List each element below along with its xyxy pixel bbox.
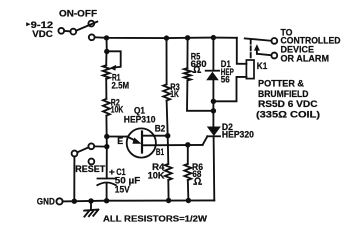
- svg-text:OR ALARM: OR ALARM: [281, 54, 330, 64]
- wire R6 top lead: [187, 145, 189, 164]
- svg-text:(335Ω COIL): (335Ω COIL): [256, 109, 320, 119]
- svg-text:E: E: [117, 136, 123, 146]
- node junction R5 to SCR anode: [211, 108, 216, 113]
- SCR D2 gate lead: [203, 136, 208, 145]
- wire R5 bottom L to SCR anode node: [187, 81, 213, 111]
- wire top supply rail: [95, 36, 237, 39]
- GND terminal circle: [56, 198, 62, 204]
- node junction R6 top on gate line: [185, 142, 190, 147]
- wire relay coil bottom lead: [213, 77, 246, 101]
- wire pot node to R1 top: [105, 52, 107, 66]
- wire D1 bottom lead: [212, 80, 214, 126]
- node junction B2: [165, 133, 170, 138]
- transistor Q1 emitter arrow: [127, 137, 136, 142]
- wire R4 bottom to ground: [167, 180, 169, 200]
- wire SCR cathode down to ground rail: [213, 136, 216, 200]
- ground symbol stem: [90, 201, 92, 210]
- label +9-12 VDC arrow: [26, 22, 30, 26]
- node junction reset wire: [104, 144, 109, 149]
- SCR D2 cathode bar: [207, 135, 220, 137]
- wire R6 bottom to ground: [187, 180, 190, 200]
- svg-text:10K: 10K: [111, 105, 124, 115]
- wiper arrowhead of R1: [110, 65, 117, 71]
- wire rail to C1 top plate: [106, 147, 108, 179]
- wire left rail down to pot tap node: [106, 38, 108, 52]
- node junction relay coil bottom: [211, 99, 216, 104]
- resistor R2 10K zigzag: [103, 99, 110, 116]
- svg-text:VDC: VDC: [32, 28, 53, 39]
- resistor R1 2.5M zigzag: [103, 65, 110, 79]
- switch S1 wire between terminals: [64, 30, 70, 33]
- svg-text:RESET: RESET: [75, 164, 106, 174]
- node junction ground symbol: [88, 198, 93, 203]
- svg-text:K1: K1: [257, 61, 268, 71]
- label ohm R6: [194, 178, 201, 184]
- relay K1 coil box: [246, 60, 254, 79]
- node junction R6 ground: [186, 198, 191, 203]
- svg-text:RS5D 6 VDC: RS5D 6 VDC: [258, 99, 318, 109]
- svg-text:HEP320: HEP320: [222, 129, 254, 139]
- SCR D2 HEP320 triangle: [207, 127, 221, 137]
- contact terminal circle lower: [271, 53, 277, 59]
- label ohm R5: [193, 67, 200, 73]
- transistor Q1 HEP310 circle: [127, 128, 156, 157]
- wire reset to rail: [94, 145, 107, 147]
- ground symbol chassis: [84, 210, 98, 217]
- switch S1 lever blade: [76, 22, 97, 31]
- node junction emitter: [104, 134, 109, 139]
- wire R1 bottom to R2 top: [105, 79, 107, 99]
- wire Q1 B1 lead to gate line: [142, 144, 203, 146]
- relay armature lever: [245, 38, 272, 40]
- switch S1 lever tip circle: [88, 21, 94, 27]
- switch S1 ON-OFF terminal circle left: [58, 28, 64, 34]
- svg-text:ALL RESISTORS=1/2W: ALL RESISTORS=1/2W: [103, 213, 208, 223]
- capacitor C1 top plate: [98, 178, 116, 180]
- resistor R3 1K zigzag: [163, 84, 170, 100]
- node junction top rail R1 branch: [104, 35, 109, 40]
- node junction C1 ground: [104, 198, 109, 203]
- node junction top rail R5 branch: [185, 35, 190, 40]
- wire rail corner down to relay coil top lead: [237, 38, 247, 64]
- node junction R1 top tap: [104, 49, 109, 54]
- svg-text:56: 56: [221, 75, 230, 85]
- svg-text:1K: 1K: [170, 89, 179, 99]
- svg-text:15V: 15V: [115, 185, 130, 195]
- svg-text:GND: GND: [37, 196, 55, 206]
- wire ground rail: [63, 200, 215, 201]
- contact terminal circle upper: [271, 38, 277, 44]
- capacitor C1 curved bottom plate: [97, 183, 116, 186]
- node junction top rail R3 branch: [164, 35, 169, 40]
- svg-text:2.5M: 2.5M: [112, 80, 130, 90]
- wire B2 node down to R4 crossing B1 line: [167, 136, 170, 164]
- svg-text:HEP310: HEP310: [124, 115, 156, 125]
- switch S1 output terminal circle: [89, 34, 95, 40]
- switch S2 lever blade: [77, 147, 88, 152]
- svg-text:10K: 10K: [148, 170, 166, 180]
- wire R2 bottom to emitter node: [105, 116, 107, 147]
- wire NO contact to terminal: [257, 54, 271, 55]
- svg-text:ON-OFF: ON-OFF: [59, 8, 98, 18]
- resistor R4 10K zigzag: [165, 164, 172, 180]
- svg-text:BRUMFIELD: BRUMFIELD: [258, 89, 309, 99]
- wire R1 rheostat loop: [107, 51, 121, 67]
- switch S2 lower contact circle: [89, 159, 95, 165]
- relay motion arrow: [256, 49, 258, 54]
- resistor R5 680 zigzag: [184, 68, 191, 80]
- svg-text:B1: B1: [156, 147, 164, 157]
- wire D1 top lead: [212, 38, 214, 71]
- node junction top rail D1 branch: [211, 35, 216, 40]
- wire emitter lead: [107, 136, 128, 138]
- switch S2 RESET left terminal circle: [72, 151, 78, 157]
- wire Q1 B2 lead: [142, 135, 168, 137]
- diode D1 HEP56 cathode bar: [206, 70, 219, 72]
- wire R5 branch from rail: [186, 38, 188, 68]
- resistor R6 68 zigzag: [184, 164, 191, 180]
- transistor Q1 base bar: [141, 132, 143, 153]
- wire R3 branch from rail: [166, 38, 168, 84]
- diode D1 triangle: [206, 72, 219, 81]
- wire R3 bottom to B2 node: [167, 101, 168, 136]
- node junction R4 ground: [166, 198, 171, 203]
- wire reset terminal down to ground rail: [73, 156, 75, 201]
- switch S2 upper terminal circle: [88, 143, 94, 149]
- node junction reset on ground rail: [72, 199, 77, 204]
- svg-text:B2: B2: [155, 123, 166, 133]
- svg-text:POTTER &: POTTER &: [258, 79, 305, 89]
- switch S1 second terminal circle: [70, 29, 76, 35]
- relay dashed linkage: [250, 40, 252, 60]
- wire C1 bottom to ground rail: [106, 184, 108, 201]
